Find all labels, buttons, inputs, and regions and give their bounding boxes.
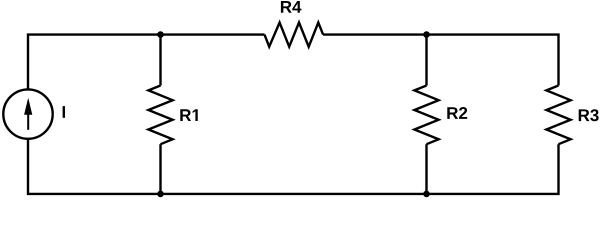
- current source I (circle): [3, 89, 52, 138]
- label R2: [447, 107, 467, 119]
- label R3: [579, 109, 599, 121]
- resistor R1 (vertical zigzag): [148, 86, 172, 145]
- junction node: R2 bottom: [423, 191, 430, 198]
- label R4: [281, 1, 302, 13]
- wire: R2 bottom lead: [425, 144, 427, 194]
- label R1: [180, 109, 197, 121]
- wire: left branch top corner + top wire to R4 left lead: [28, 35, 265, 90]
- wire: R1 bottom lead: [159, 144, 161, 194]
- wire: R2 top lead: [425, 35, 427, 86]
- resistor R3 (vertical zigzag): [546, 86, 570, 145]
- current source arrow: [24, 98, 32, 130]
- junction node: R1 bottom: [157, 191, 164, 198]
- junction node: R2 top: [423, 31, 430, 38]
- junction node: R1 top: [157, 31, 164, 38]
- wire: top wire from R4 to top-right corner + right branch down to R3: [323, 35, 558, 86]
- wire: R3 bottom lead + bottom wire + left branch bottom to source: [28, 139, 559, 194]
- label I (current source): [63, 106, 65, 118]
- resistor R2 (vertical zigzag): [414, 86, 438, 145]
- wire: R1 top lead: [159, 35, 161, 86]
- resistor R4 (horizontal zigzag): [265, 23, 324, 47]
